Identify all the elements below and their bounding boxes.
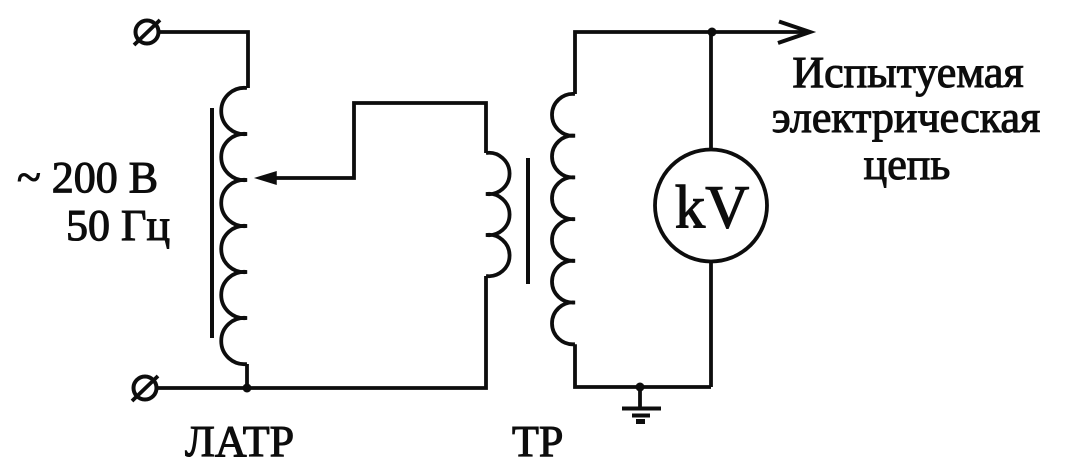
svg-text:ТР: ТР [512,417,563,466]
svg-text:цепь: цепь [864,140,951,189]
svg-text:~ 200 В: ~ 200 В [17,153,158,202]
svg-text:50 Гц: 50 Гц [66,201,170,250]
svg-text:ЛАТР: ЛАТР [185,417,294,466]
svg-text:электрическая: электрическая [772,93,1040,142]
svg-text:Испытуемая: Испытуемая [792,48,1023,97]
svg-text:kV: kV [675,175,750,242]
